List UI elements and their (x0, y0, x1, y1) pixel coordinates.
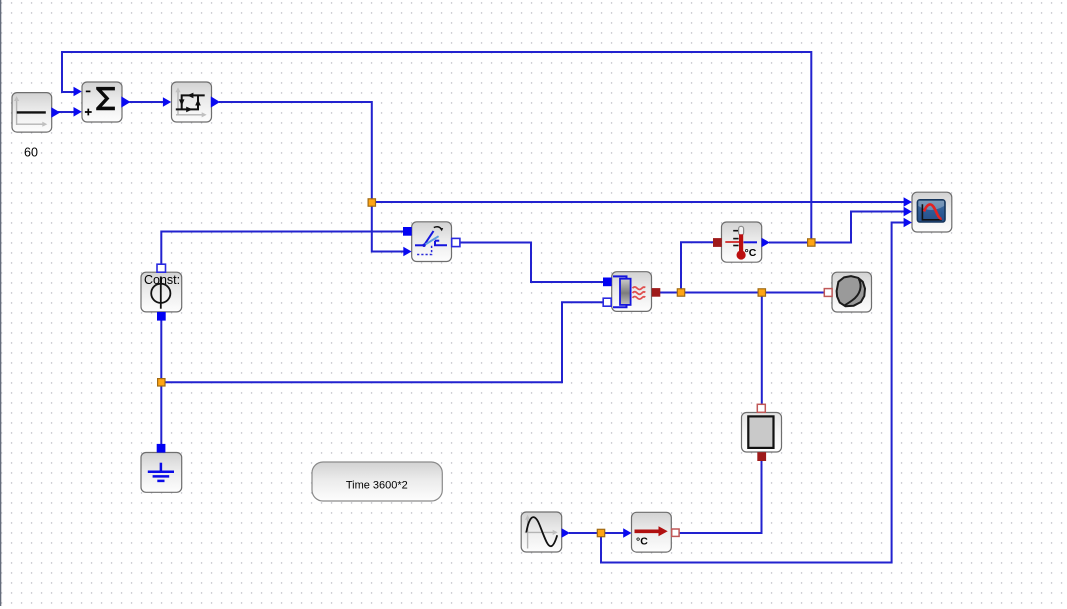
scope SC1 (904, 192, 952, 232)
wire constant voltage V1 minus pin to node J5 to ground G1 (160, 320, 162, 445)
wire heating resistor R1 pin n to node J5 (164, 302, 604, 382)
sum block SUM1 (74, 82, 131, 122)
node J1 (368, 199, 375, 206)
wire switch pin n to heating resistor R1 pin p (460, 243, 604, 283)
node J2 (808, 239, 815, 246)
wire node J2 feedback to sum minus input (62, 52, 811, 243)
heating resistor R1 (603, 272, 660, 312)
thermal conductor TC1 (742, 404, 782, 461)
wire sine output to node J6 (569, 532, 598, 534)
wire node J6 to scope input 3 (601, 223, 904, 563)
svg-text:°C: °C (636, 536, 648, 548)
wire constant voltage V1 plus pin to switch pin p (161, 232, 403, 265)
node J5 (158, 379, 165, 386)
annotation text Time 3600*2 (312, 462, 442, 501)
sine source SINE1 (521, 512, 570, 552)
wire node J1 to switch control input (372, 203, 404, 252)
wire temperature sensor TS1 output to node J2 (769, 242, 811, 244)
constant voltage source V1 Const (141, 264, 182, 320)
heat capacitor C1 (824, 272, 871, 312)
temperature sensor TS1 (713, 222, 770, 262)
node J3 (677, 289, 684, 296)
wire prescribed temperature T1 port to thermal conductor TC1 bottom port (679, 461, 762, 533)
svg-text:°C: °C (745, 247, 757, 259)
hysteresis block H1 (163, 82, 220, 122)
wire thermal conductor TC1 top port to node J4 (761, 296, 763, 405)
wire heating resistor R1 heat port through J3 and J4 to heat capacitor C1 port (660, 292, 825, 294)
wire step output to sum plus input (58, 111, 74, 113)
switch S1 (403, 222, 460, 262)
wire node J2 to scope input 2 (811, 212, 904, 243)
node J6 (597, 529, 604, 536)
wire sum output to hysteresis input (130, 101, 165, 103)
wire node J1 to scope input 1 (372, 201, 904, 203)
wire hysteresis output to node J1 (219, 102, 372, 203)
prescribed temperature T1 (623, 512, 679, 552)
svg-text:Const:: Const: (144, 273, 180, 287)
ground G1 (141, 444, 182, 492)
wire node J6 to prescribed temperature T1 input (604, 532, 624, 534)
node J4 (758, 289, 765, 296)
constant source CONST1 value 60 (12, 93, 60, 160)
wire node J3 to temperature sensor TS1 heat port (681, 242, 714, 292)
svg-text:60: 60 (24, 146, 38, 160)
left window border (0, 0, 1, 606)
svg-text:Time 3600*2: Time 3600*2 (346, 480, 408, 492)
